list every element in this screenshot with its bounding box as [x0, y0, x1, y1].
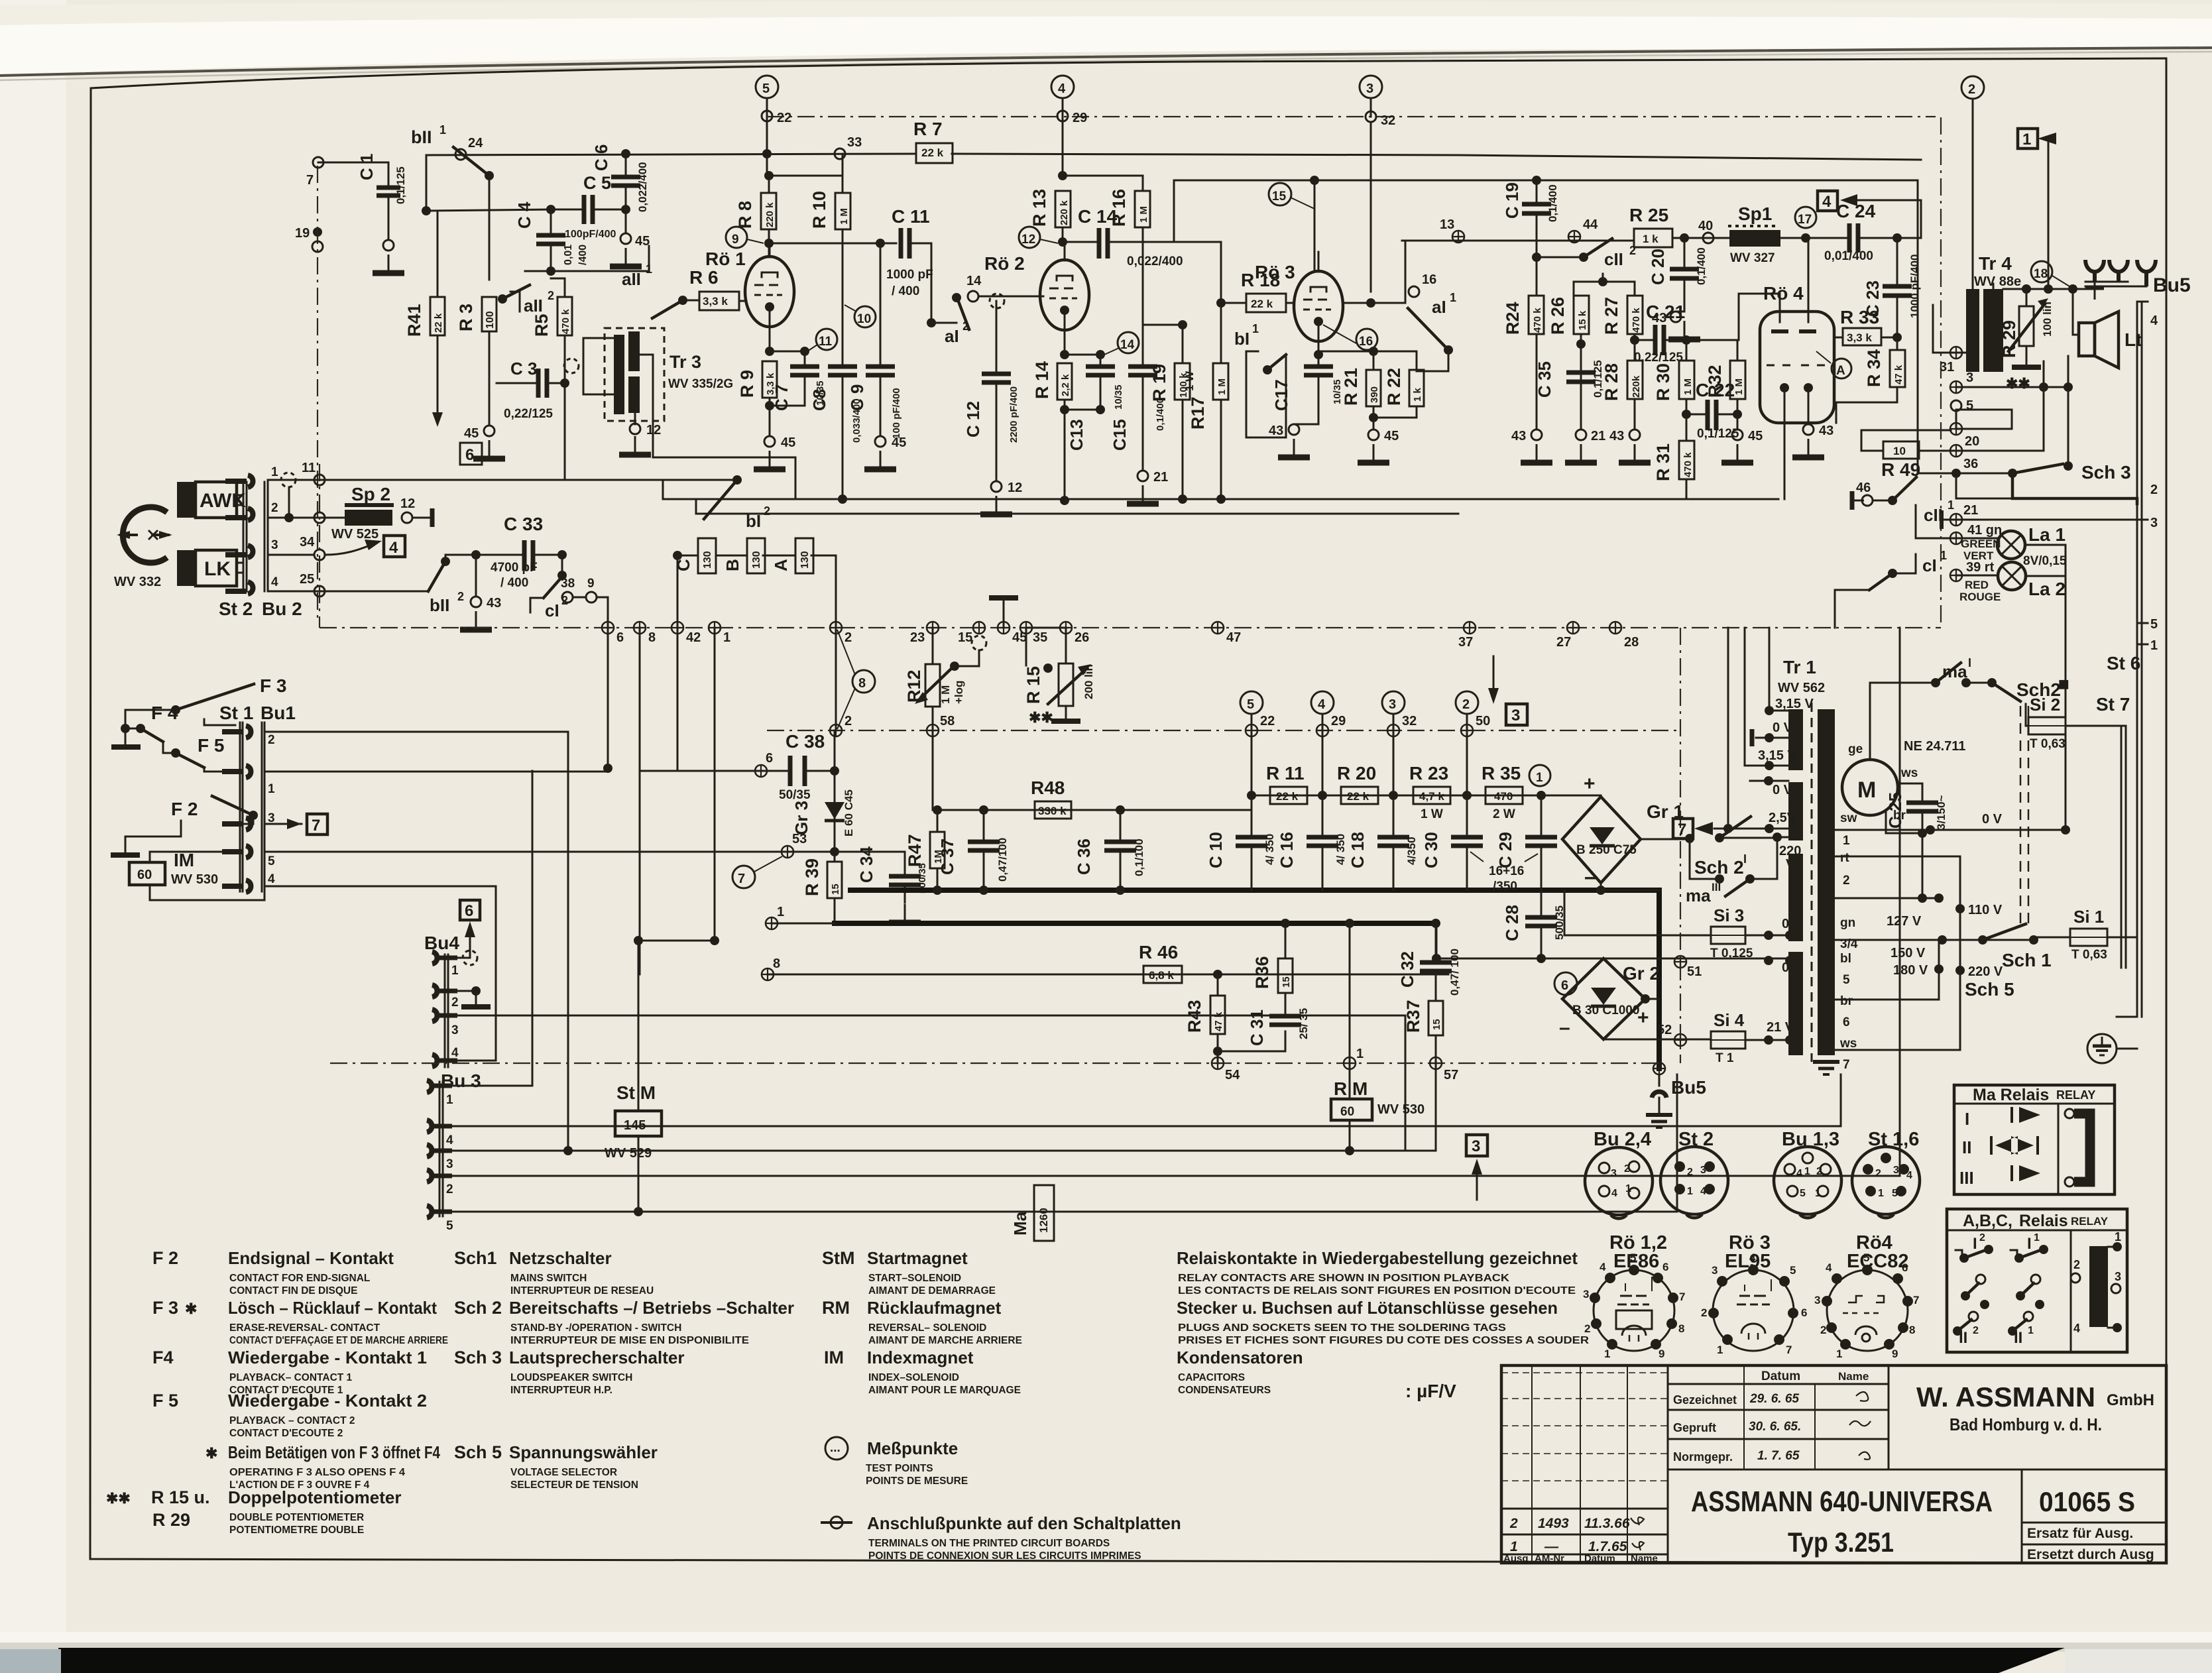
svg-text:2200 pF/400: 2200 pF/400 — [1008, 386, 1019, 443]
capacitor C5 — [584, 195, 593, 224]
svg-text:3/150~: 3/150~ — [1935, 795, 1948, 830]
svg-text:1 M: 1 M — [1733, 378, 1745, 395]
svg-text:1: 1 — [2034, 1232, 2040, 1243]
svg-text:R 30: R 30 — [1653, 363, 1673, 401]
svg-text:3: 3 — [1472, 1137, 1480, 1155]
svg-text:Sch 5: Sch 5 — [1965, 979, 2014, 1000]
svg-text:La 1: La 1 — [2028, 524, 2066, 545]
svg-text:12: 12 — [1021, 233, 1035, 247]
resistor R41 with arrow — [422, 206, 431, 215]
maI Sch2 Si2 St7 — [1870, 682, 1936, 684]
svg-text:220 k: 220 k — [764, 202, 776, 227]
svg-text:R24: R24 — [1503, 302, 1523, 335]
motor M — [1842, 760, 1898, 815]
svg-text:III: III — [1712, 881, 1721, 894]
svg-text:47 k: 47 k — [1213, 1011, 1224, 1031]
svg-text:5: 5 — [1966, 398, 1973, 413]
svg-text:C 9: C 9 — [847, 384, 867, 411]
cI1 switch — [1892, 554, 1916, 573]
capacitor C31 — [1269, 1016, 1301, 1025]
coil Sp2 — [345, 510, 392, 526]
svg-text:PLUGS AND SOCKETS SEEN TO: PLUGS AND SOCKETS SEEN TO THE SOLDERING … — [1178, 1322, 1506, 1334]
svg-text:7: 7 — [738, 872, 745, 886]
svg-text:32: 32 — [1402, 714, 1417, 728]
relay contact box C — [698, 538, 716, 573]
svg-text:DOUBLE POTENTIOMETER: DOUBLE POTENTIOMETER — [229, 1512, 364, 1523]
R39 C34 — [834, 852, 836, 862]
svg-text:MAINS SWITCH: MAINS SWITCH — [510, 1273, 587, 1284]
svg-text:26: 26 — [1075, 630, 1089, 645]
svg-text:2: 2 — [2150, 483, 2158, 497]
resistor R39 — [827, 862, 842, 898]
svg-text:Anschlußpunkte auf den Schaltp: Anschlußpunkte auf den Schaltplatten — [867, 1513, 1181, 1533]
svg-text:1: 1 — [2022, 131, 2031, 148]
svg-text:0,022/400: 0,022/400 — [1127, 255, 1183, 268]
svg-text:12: 12 — [400, 496, 415, 511]
resistor R19 — [1175, 363, 1190, 400]
svg-text:4700 pF: 4700 pF — [491, 561, 538, 575]
svg-text:1: 1 — [2150, 638, 2158, 653]
svg-text:45: 45 — [1748, 429, 1763, 443]
resistor R30 — [1679, 361, 1694, 399]
svg-text:28: 28 — [1624, 635, 1639, 650]
svg-text:11: 11 — [302, 461, 316, 475]
svg-text:bl: bl — [1840, 952, 1851, 966]
transformer Tr1 — [1788, 709, 1803, 770]
node 19 — [313, 227, 322, 237]
svg-text:12: 12 — [1008, 481, 1022, 495]
svg-text:5: 5 — [446, 1219, 453, 1233]
svg-text:/350: /350 — [1493, 880, 1517, 894]
resistor R8 — [761, 193, 776, 229]
capacitor C38 — [790, 756, 805, 786]
capacitor C22 — [1708, 400, 1716, 430]
transformer Tr3 — [614, 335, 624, 414]
terminal circle 5 — [756, 76, 778, 98]
svg-text:INTERRUPTEUR H.P.: INTERRUPTEUR H.P. — [510, 1385, 612, 1396]
svg-text:22: 22 — [1260, 714, 1275, 728]
svg-text:3: 3 — [1611, 1168, 1617, 1179]
svg-text:9: 9 — [1892, 1348, 1898, 1360]
node 45 + ground under R3 — [484, 426, 495, 436]
svg-text:2: 2 — [1584, 1322, 1590, 1335]
svg-text:R M: R M — [1334, 1078, 1368, 1099]
svg-text:CONTACT D'EFFAÇAGE ET DE MARCH: CONTACT D'EFFAÇAGE ET DE MARCHE ARRIERE — [229, 1335, 448, 1346]
svg-text:WV 530: WV 530 — [171, 872, 218, 887]
svg-text:3,3 k: 3,3 k — [703, 295, 728, 308]
resistor R17 — [1213, 363, 1228, 400]
svg-text:Name: Name — [1838, 1370, 1869, 1383]
svg-text:1: 1 — [1252, 322, 1259, 335]
svg-text:C13: C13 — [1067, 419, 1086, 451]
svg-text:RM: RM — [822, 1298, 850, 1318]
R47 C37 R48 C36 — [933, 809, 1252, 811]
svg-text:✱✱: ✱✱ — [2006, 375, 2030, 392]
svg-text:bII: bII — [411, 127, 432, 147]
svg-text:3: 3 — [1700, 1165, 1706, 1176]
svg-text:POTENTIOMETRE DOUBLE: POTENTIOMETRE DOUBLE — [229, 1525, 364, 1536]
svg-text:B 30 C1000: B 30 C1000 — [1572, 1004, 1639, 1017]
box 4 with arrow — [1818, 191, 1837, 211]
svg-text:0,1/400: 0,1/400 — [1546, 184, 1559, 222]
svg-text:100: 100 — [485, 311, 496, 329]
svg-text:6: 6 — [465, 902, 473, 920]
solenoid Ma — [1034, 1185, 1054, 1241]
capacitor C12 — [982, 374, 1011, 382]
B+ rail thick — [835, 921, 1436, 926]
head AWK — [177, 482, 196, 518]
dash row 2 — [767, 730, 1680, 731]
svg-text:Si 3: Si 3 — [1714, 905, 1744, 925]
nodes 31 3 5 20 36 — [1933, 305, 1966, 353]
svg-text:23: 23 — [910, 630, 925, 645]
svg-text:C 20: C 20 — [1648, 249, 1668, 285]
nodes on 947 line — [602, 622, 614, 634]
svg-text:–: – — [1559, 1017, 1570, 1039]
svg-text:130: 130 — [751, 551, 762, 569]
svg-text:10: 10 — [1893, 445, 1906, 457]
svg-text:6: 6 — [1561, 978, 1568, 993]
svg-text:0,1/100: 0,1/100 — [1133, 838, 1145, 876]
svg-text:◼: ◼ — [2058, 677, 2069, 691]
svg-text:cI: cI — [1922, 555, 1937, 575]
svg-text:A: A — [1836, 364, 1845, 378]
svg-text:2: 2 — [271, 501, 278, 515]
svg-text:AM-Nr: AM-Nr — [1535, 1553, 1564, 1564]
bridge rectifier Gr1 — [1562, 797, 1641, 883]
svg-text:A,B,C,: A,B,C, — [1963, 1212, 2012, 1230]
chassis dash-dot vertical left — [317, 166, 318, 620]
svg-text:R 11: R 11 — [1266, 763, 1305, 783]
svg-text:REVERSAL– SOLENOID: REVERSAL– SOLENOID — [868, 1322, 986, 1334]
svg-text:AIMANT POUR LE MARQUAGE: AIMANT POUR LE MARQUAGE — [868, 1385, 1021, 1396]
cI2 switch — [561, 555, 563, 571]
resistor R46 — [1143, 966, 1182, 983]
bridge rectifier Gr2 — [1562, 958, 1645, 1039]
svg-text:4/ 350: 4/ 350 — [1263, 834, 1276, 865]
svg-text:9: 9 — [732, 233, 739, 247]
svg-text:1: 1 — [1536, 771, 1543, 785]
svg-text:100pF/400: 100pF/400 — [565, 229, 616, 240]
svg-text:12: 12 — [646, 423, 661, 437]
svg-text:5: 5 — [1843, 973, 1850, 987]
capacitor C14 — [1099, 228, 1108, 259]
svg-text:1: 1 — [268, 782, 275, 796]
svg-text:51: 51 — [1687, 964, 1702, 979]
svg-text:B: B — [723, 559, 742, 571]
svg-text:4: 4 — [271, 575, 278, 589]
svg-text:WV 332: WV 332 — [114, 575, 161, 589]
pin wires — [264, 732, 568, 1151]
svg-text:1: 1 — [1356, 1047, 1364, 1061]
svg-text:5: 5 — [268, 854, 275, 868]
svg-text:POINTS DE CONNEXION SUR LE: POINTS DE CONNEXION SUR LES CIRCUITS IMP… — [868, 1550, 1141, 1562]
svg-text:: µF/V: : µF/V — [1405, 1381, 1456, 1401]
svg-text:Netzschalter: Netzschalter — [509, 1248, 612, 1268]
svg-text:R43: R43 — [1185, 1000, 1204, 1033]
capacitor C9 — [866, 367, 895, 375]
svg-text:aI: aI — [945, 326, 959, 346]
svg-text:1: 1 — [1878, 1188, 1884, 1199]
svg-text:470 k: 470 k — [1631, 308, 1642, 333]
svg-text:1 W: 1 W — [1183, 371, 1196, 391]
svg-text:45: 45 — [1384, 429, 1399, 443]
svg-text:2: 2 — [1973, 1325, 1979, 1336]
svg-text:WV 562: WV 562 — [1778, 681, 1825, 695]
svg-text:470 k: 470 k — [1682, 452, 1694, 477]
svg-text:3: 3 — [1814, 1294, 1820, 1306]
svg-text:17: 17 — [1798, 213, 1812, 227]
svg-text:10: 10 — [857, 312, 871, 326]
svg-text:1 M: 1 M — [839, 208, 850, 225]
svg-text:3: 3 — [451, 1023, 459, 1037]
svg-text:2: 2 — [1968, 82, 1975, 97]
svg-text:C 4: C 4 — [514, 202, 534, 229]
svg-text:1: 1 — [439, 123, 446, 137]
svg-text:8V/0,15: 8V/0,15 — [2023, 554, 2067, 568]
C17 — [1314, 350, 1323, 359]
svg-text:R 27: R 27 — [1601, 297, 1621, 335]
svg-text:2: 2 — [1875, 1168, 1881, 1179]
svg-text:Ma: Ma — [1010, 1211, 1030, 1236]
svg-text:4: 4 — [1906, 1170, 1912, 1181]
svg-text:37: 37 — [1458, 635, 1473, 650]
svg-text:ge: ge — [1848, 742, 1863, 756]
svg-text:R 19: R 19 — [1149, 364, 1169, 402]
heavy line to right bus — [2012, 473, 2137, 504]
svg-text:bI: bI — [1234, 329, 1250, 349]
svg-text:0,1/400: 0,1/400 — [1155, 398, 1166, 431]
svg-text:5: 5 — [1863, 1251, 1869, 1264]
svg-text:4: 4 — [446, 1133, 453, 1147]
chassis dash horizontal top — [767, 116, 1936, 117]
svg-text:T 0,63: T 0,63 — [2071, 948, 2107, 962]
svg-text:42: 42 — [686, 630, 701, 645]
capacitor C4 — [536, 235, 565, 244]
svg-text:LES CONTACTS DE RELAIS SON: LES CONTACTS DE RELAIS SONT FIGURES EN P… — [1178, 1285, 1576, 1297]
svg-text:1: 1 — [723, 630, 730, 645]
svg-text:9: 9 — [1659, 1348, 1664, 1360]
chassis dash line y=947 — [320, 627, 1941, 628]
svg-text:14: 14 — [966, 274, 982, 288]
svg-text:1. 7. 65: 1. 7. 65 — [1757, 1449, 1800, 1463]
svg-text:200 lin: 200 lin — [1082, 664, 1095, 699]
wire aII2 and R3 — [546, 266, 555, 276]
svg-text:1: 1 — [1836, 1348, 1842, 1360]
svg-text:Gepruft: Gepruft — [1673, 1421, 1716, 1434]
svg-text:2: 2 — [457, 590, 464, 603]
svg-text:AWK: AWK — [200, 490, 246, 512]
svg-text:CONTACT D'ECOUTE 2: CONTACT D'ECOUTE 2 — [229, 1428, 343, 1439]
svg-text:/ 400: / 400 — [500, 576, 528, 590]
svg-text:2: 2 — [1687, 1167, 1693, 1178]
cII2 switch — [1532, 253, 1541, 262]
svg-text:C 28: C 28 — [1502, 905, 1522, 941]
test point 9 — [726, 227, 747, 248]
svg-text:30. 6. 65.: 30. 6. 65. — [1749, 1420, 1801, 1434]
Sch3 switch — [2008, 469, 2017, 478]
svg-text:R 10: R 10 — [809, 191, 829, 229]
svg-text:5: 5 — [1790, 1264, 1796, 1277]
capacitor C8 — [828, 367, 857, 375]
svg-text:4: 4 — [2073, 1322, 2080, 1335]
svg-text:7: 7 — [1786, 1344, 1792, 1356]
svg-text:5: 5 — [762, 82, 770, 96]
svg-text:✱✱: ✱✱ — [106, 1490, 131, 1507]
capacitor C33 — [524, 540, 533, 571]
pin3 wire to box4 — [268, 554, 314, 556]
svg-text:22 k: 22 k — [433, 313, 444, 333]
svg-text:RED: RED — [1965, 579, 1989, 591]
svg-text:1: 1 — [1815, 1188, 1821, 1199]
svg-text:3,3 k: 3,3 k — [1847, 331, 1872, 344]
svg-text:36: 36 — [1963, 457, 1978, 471]
svg-text:TERMINALS ON THE PRINTED C: TERMINALS ON THE PRINTED CIRCUIT BOARDS — [868, 1538, 1110, 1549]
svg-text:15: 15 — [830, 884, 841, 895]
capacitor C19 — [1536, 180, 1538, 257]
svg-text:54: 54 — [1225, 1068, 1240, 1082]
svg-text:1493: 1493 — [1538, 1516, 1569, 1531]
svg-text:C 36: C 36 — [1074, 838, 1094, 875]
svg-text:Startmagnet: Startmagnet — [867, 1248, 968, 1268]
svg-text:2: 2 — [1816, 1166, 1822, 1177]
svg-text:7: 7 — [1843, 1058, 1850, 1072]
svg-text:15: 15 — [1272, 190, 1287, 203]
svg-text:2: 2 — [962, 319, 969, 333]
capacitor C24 — [1849, 223, 1858, 253]
resistor R18 — [1246, 294, 1286, 312]
svg-text:4: 4 — [2150, 314, 2158, 328]
svg-text:3: 3 — [1366, 82, 1373, 96]
svg-text:15: 15 — [1431, 1019, 1442, 1030]
svg-text:C 29: C 29 — [1495, 832, 1515, 868]
svg-text:cII: cII — [1604, 249, 1623, 269]
circled 15 with line — [1269, 183, 1291, 205]
R15 pot — [1026, 628, 1066, 665]
svg-text:0 V: 0 V — [1982, 812, 2003, 827]
Sp1 — [1728, 225, 1778, 227]
svg-text:100 pF/400: 100 pF/400 — [891, 388, 902, 439]
fuse Si1 — [2070, 929, 2107, 946]
svg-text:2: 2 — [1701, 1306, 1707, 1319]
svg-text:180 V: 180 V — [1893, 963, 1928, 978]
resistor R21 — [1366, 370, 1381, 406]
svg-text:R 29: R 29 — [152, 1510, 190, 1530]
fold shadow line — [0, 48, 2212, 76]
lamp La2 — [1998, 562, 2026, 590]
svg-text:R 46: R 46 — [1139, 942, 1178, 962]
svg-text:2: 2 — [2073, 1258, 2080, 1271]
erase head symbol WV332 — [123, 507, 167, 563]
svg-text:I: I — [2027, 1235, 2032, 1253]
capacitor C16 — [1307, 837, 1338, 846]
svg-text:I: I — [1965, 1109, 1969, 1129]
capacitor C30 — [1451, 837, 1483, 846]
circled 16 — [1356, 329, 1377, 350]
grid wire to C11 — [769, 243, 896, 245]
svg-text:C 31: C 31 — [1247, 1010, 1267, 1046]
node 21 line — [1940, 510, 1944, 529]
svg-text:1260: 1260 — [1037, 1208, 1050, 1233]
svg-text:6: 6 — [616, 630, 624, 645]
svg-text:PLAYBACK – CONTACT 2: PLAYBACK – CONTACT 2 — [229, 1415, 355, 1426]
svg-text:127 V: 127 V — [1887, 914, 1922, 929]
capacitor C13 — [1086, 367, 1115, 375]
svg-text:R 39: R 39 — [802, 858, 822, 896]
svg-text:1 k: 1 k — [1643, 233, 1659, 245]
resistor R36 — [1278, 958, 1293, 993]
svg-text:6: 6 — [1662, 1261, 1668, 1273]
resistor R49 — [1883, 441, 1919, 459]
bottom page edge + black scanner band — [0, 1632, 2212, 1646]
svg-text:3: 3 — [1389, 697, 1396, 712]
svg-text:1: 1 — [1717, 1344, 1723, 1356]
svg-text:58: 58 — [940, 714, 955, 728]
svg-text:sw: sw — [1840, 811, 1857, 825]
svg-text:PRISES ET FICHES SONT FIGU: PRISES ET FICHES SONT FIGURES DU COTE DE… — [1178, 1335, 1589, 1346]
svg-text:R 20: R 20 — [1337, 763, 1376, 783]
capacitor C19 — [1522, 204, 1551, 213]
svg-text:43: 43 — [1609, 429, 1624, 443]
svg-text:16: 16 — [1359, 335, 1373, 349]
capacitor C28 — [1525, 917, 1557, 926]
svg-text:60: 60 — [1340, 1105, 1354, 1119]
svg-text:C 11: C 11 — [892, 206, 930, 227]
svg-text:✱✱: ✱✱ — [1029, 709, 1053, 726]
capacitor C17 — [1304, 367, 1333, 375]
cathode node + R9/C7 — [765, 347, 774, 356]
svg-text:R 35: R 35 — [1482, 763, 1521, 783]
resistor R7 — [916, 143, 953, 163]
capacitor C20 — [1670, 269, 1699, 278]
svg-text:II: II — [1959, 1329, 1967, 1347]
51 line / Gr2 — [1674, 956, 1686, 968]
svg-text:52: 52 — [1657, 1023, 1672, 1037]
speaker Lt — [2072, 289, 2074, 335]
circled A — [1832, 359, 1851, 378]
svg-text:Tr 4: Tr 4 — [1979, 253, 2012, 274]
svg-text:Bu4: Bu4 — [424, 933, 459, 953]
svg-text:Rö 3: Rö 3 — [1255, 262, 1295, 282]
node 24 / 33 on bus — [455, 149, 466, 160]
svg-text:R5: R5 — [532, 314, 552, 337]
svg-text:43: 43 — [1819, 424, 1834, 438]
resistor R28 — [1627, 361, 1643, 399]
svg-text:cI: cI — [545, 601, 559, 620]
svg-text:390: 390 — [1369, 386, 1380, 403]
svg-text:18: 18 — [2034, 267, 2048, 281]
capacitor C10 — [1236, 837, 1267, 846]
svg-text:Bereitschafts –/ Betriebs –Sch: Bereitschafts –/ Betriebs –Schalter — [509, 1298, 794, 1318]
svg-text:AIMANT DE MARCHE ARRIERE: AIMANT DE MARCHE ARRIERE — [868, 1335, 1022, 1346]
svg-text:45: 45 — [781, 435, 795, 450]
svg-text:1: 1 — [271, 465, 278, 479]
svg-text:F 4: F 4 — [151, 703, 178, 723]
svg-text:INTERRUPTEUR DE RESEAU: INTERRUPTEUR DE RESEAU — [510, 1285, 654, 1297]
svg-text:WV 335/2G: WV 335/2G — [668, 377, 733, 391]
svg-text:Normgepr.: Normgepr. — [1673, 1450, 1733, 1464]
C38 Gr3 — [755, 765, 767, 777]
svg-text:Sch 3: Sch 3 — [2081, 462, 2131, 483]
svg-text:10/35: 10/35 — [1113, 384, 1124, 410]
svg-text:CONTACT FIN DE DISQUE: CONTACT FIN DE DISQUE — [229, 1285, 357, 1297]
solenoid IM — [129, 862, 165, 885]
svg-text:R 8: R 8 — [735, 201, 755, 229]
svg-text:St 6: St 6 — [2107, 653, 2140, 673]
svg-text:4/ 350: 4/ 350 — [1334, 834, 1347, 865]
svg-text:ECC82: ECC82 — [1847, 1251, 1909, 1272]
relay contact box B — [747, 538, 765, 573]
